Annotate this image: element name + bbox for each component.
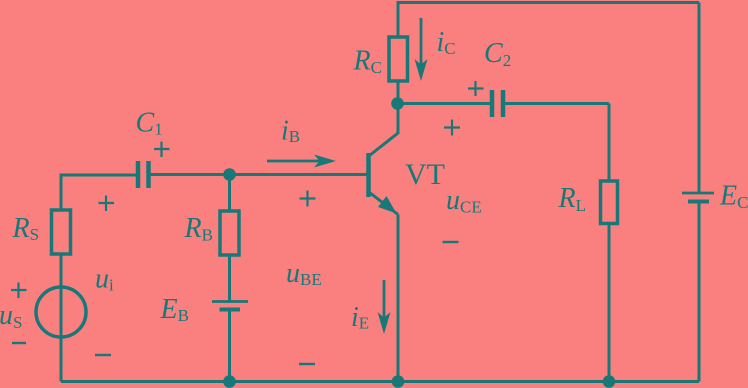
battery EB long plate [212,300,248,303]
polarity plus left of C2 [468,81,484,96]
resistor RS [52,210,71,254]
battery EB short plate [220,308,241,312]
polarity plus of ui [99,196,115,212]
resistor RL [601,181,618,224]
polarity plus of uCE [444,120,460,136]
battery EC long plate [682,192,714,195]
svg-text:VT: VT [405,158,445,191]
current arrow iB [267,155,336,168]
wire: RC bottom lead to collector node [397,81,400,104]
resistor RC [389,37,408,81]
polarity plus of uBE [300,191,316,207]
source uS circle [36,287,86,337]
node: emitter bottom rail junction dot [392,375,405,388]
polarity plus right of C1 [154,142,170,158]
transistor VT base bar [366,153,371,197]
wire: RC top lead from top rail [397,1,400,37]
wire: emitter vertical to bottom rail [397,215,400,382]
polarity minus of ui [95,354,111,356]
wire: base node down to RB [228,175,231,212]
resistor RB [220,211,239,255]
current arrow iE [378,280,391,334]
wire: RS bottom through source circle to bottom rail [60,254,63,382]
polarity plus of uS [11,283,27,299]
wire: top-left corner to C1 left plate [61,174,136,177]
capacitor C1 [138,161,149,188]
wire: bottom rail [61,380,699,383]
battery EC short plate [688,200,709,204]
node: collector junction dot [391,97,404,110]
wire: right vertical from top rail down to EC battery [698,3,701,193]
node: base junction dot [223,168,236,181]
wire: collector node to C2 left plate [398,102,491,105]
wire: top rail from RC top to EC branch [398,1,699,4]
wire: EC battery to bottom rail [698,202,701,382]
wire: C1 right plate to base bar [151,173,368,176]
wire: EB battery to bottom rail [228,310,231,382]
wire: C2 right plate to RL branch corner [505,102,609,105]
polarity minus of uCE [443,241,459,243]
capacitor C2 [492,90,503,117]
wire: RL bottom lead to bottom rail [608,224,611,382]
wire: left branch down from corner to RS [60,174,63,211]
wire: RL branch vertical down to RL top [608,104,611,182]
transistor VT emitter lead with arrow [370,193,399,215]
polarity minus of uBE [299,363,315,365]
node: RB branch bottom rail junction dot [223,375,236,388]
polarity minus of uS [12,342,26,344]
transistor VT collector lead [370,104,399,156]
node: RL branch bottom rail junction dot [603,375,616,388]
current arrow iC [415,18,428,81]
wire: RB bottom to EB battery [228,255,231,302]
